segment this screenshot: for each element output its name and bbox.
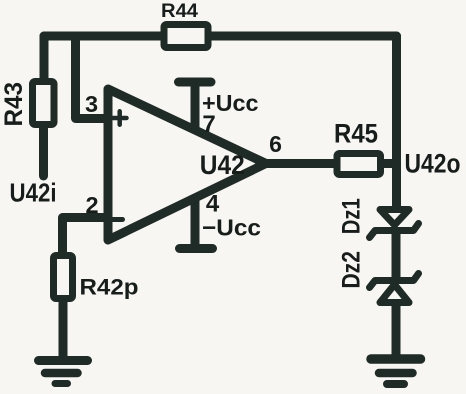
op-amp U42 — [108, 89, 266, 240]
wire output pin 6 to node — [266, 159, 397, 168]
wire between Dz1 and Dz2 — [392, 231, 401, 280]
resistor R42p — [54, 256, 73, 299]
resistor R44 — [164, 25, 208, 48]
zener diode Dz1 — [370, 210, 419, 238]
op-amp minus input mark — [113, 217, 123, 222]
zener diode Dz2 — [370, 274, 419, 303]
svg-text:Dz2: Dz2 — [338, 251, 366, 289]
wire R43 bottom to U42i — [39, 124, 48, 176]
+Vcc supply bar — [179, 78, 212, 87]
svg-text:U42o: U42o — [405, 149, 461, 179]
wire pin 2 to R42p — [63, 218, 107, 255]
svg-text:R45: R45 — [334, 119, 378, 149]
svg-text:U42i: U42i — [10, 178, 57, 208]
wire junction down to pin 3 — [76, 36, 107, 119]
svg-text:4: 4 — [206, 191, 220, 218]
svg-text:3: 3 — [85, 91, 98, 117]
svg-text:6: 6 — [269, 131, 282, 157]
wire +Vcc stem pin 7 — [191, 82, 200, 130]
svg-text:U42: U42 — [200, 150, 245, 180]
svg-text:R42p: R42p — [80, 274, 139, 299]
wire -Vcc stem pin 4 — [191, 197, 200, 249]
op-amp plus input mark — [113, 111, 127, 124]
svg-text:+Ucc: +Ucc — [202, 90, 259, 116]
svg-text:Dz1: Dz1 — [338, 198, 366, 234]
-Vcc supply bar — [180, 244, 213, 253]
resistor R43 — [33, 82, 55, 125]
wire Dz2 to ground — [392, 302, 401, 357]
ground left — [39, 361, 88, 384]
svg-text:2: 2 — [85, 192, 98, 218]
wire left vertical to R43 — [40, 36, 49, 82]
svg-text:R43: R43 — [0, 82, 28, 127]
wire right vertical from top — [392, 36, 401, 206]
resistor R45 — [337, 154, 381, 175]
svg-text:−Ucc: −Ucc — [202, 215, 261, 241]
wire R42p to ground — [59, 300, 68, 357]
wire top feedback — [44, 32, 397, 41]
ground right — [371, 359, 421, 384]
svg-text:R44: R44 — [161, 1, 198, 22]
